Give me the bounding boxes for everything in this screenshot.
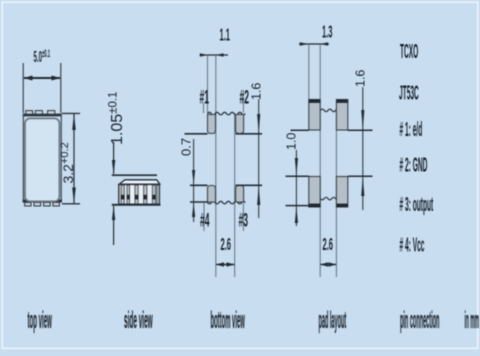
dim 3.2 arrowhead up [72, 114, 76, 130]
ext line 1.3 left [308, 44, 310, 100]
svg-text:# 2: GND: # 2: GND [400, 155, 428, 176]
svg-text:1.6: 1.6 [250, 83, 264, 100]
ext line 2.6 right (long) [234, 113, 236, 277]
dim 1.3 arrowhead left-pointing [321, 42, 329, 46]
bottom tab 1 [25, 202, 31, 206]
leader line pin3 [242, 203, 244, 231]
dim 1.6 up arrowhead [257, 186, 260, 205]
bottom tab 2 [34, 202, 41, 206]
side pad stripe 1 [121, 185, 124, 204]
svg-text:0.7: 0.7 [179, 138, 194, 156]
line from pad4 top to left [190, 184, 208, 186]
dim 1.1 arrowhead left-pointing [216, 53, 223, 57]
ext line right pads inner (long) [335, 108, 337, 277]
dim 3.2 extension line top [62, 112, 80, 114]
inner body rounded rect [25, 118, 59, 201]
dim 3.2 extension line bottom [62, 203, 80, 205]
line pads bottom row top-left [286, 175, 309, 177]
svg-text:2.6: 2.6 [323, 234, 334, 254]
svg-text:#1: #1 [200, 88, 210, 109]
svg-text:#3: #3 [239, 211, 249, 232]
dim 1.6 line [362, 87, 364, 210]
dim 0.7 down arrowhead [192, 170, 195, 185]
dim 1.6 down arrowhead [257, 114, 260, 133]
svg-text:pin connection: pin connection [400, 306, 439, 334]
pad top-right [336, 100, 347, 131]
dim 1.05 upper line with down arrow [113, 142, 115, 174]
wavy top line [309, 109, 347, 112]
pad #4 (bottom-left) [208, 186, 216, 203]
svg-text:bottom view: bottom view [211, 306, 245, 333]
leader line pin2 [242, 97, 244, 113]
package top edge bar [23, 114, 62, 117]
dim 5.0 arrowhead right [52, 76, 61, 81]
pad #1 (top-left) [208, 115, 216, 134]
package bottom edge bar [23, 199, 62, 202]
dim 1.1 line [200, 54, 229, 56]
top tab 2 [35, 111, 42, 115]
line pads bottom row top-right [348, 175, 373, 177]
wavy bottom outline [208, 201, 246, 204]
svg-text:1.6: 1.6 [354, 70, 368, 87]
dim 1.3 arrowhead right-pointing [300, 42, 309, 46]
side view bottom line [112, 204, 161, 206]
leader line pin4 [203, 203, 205, 231]
line pads top row bottom-left [291, 129, 309, 131]
line pads bottom row bottom-left [286, 205, 309, 207]
dim 1.3 line [299, 43, 329, 45]
ext line 1.3 right (long to 2.6) [319, 44, 321, 277]
svg-text:# 1: e/d: # 1: e/d [400, 120, 423, 141]
svg-text:pad layout: pad layout [319, 306, 347, 334]
dim 2.6 arrowhead right [227, 262, 235, 266]
dim 2.6 arrow line [321, 264, 336, 266]
svg-text:#4: #4 [200, 211, 210, 232]
line from pad3 top to right [236, 184, 262, 186]
package left edge [23, 114, 24, 203]
pad bottom-left [309, 177, 320, 208]
bottom tab 4 [53, 202, 59, 206]
dim 1.6 up arrowhead [361, 177, 364, 196]
dim 5.0 extension line left [22, 63, 24, 113]
top tab 3 [48, 111, 55, 115]
side pad stripe 3 [135, 185, 138, 204]
dim 5.0 arrowhead left [24, 76, 33, 81]
line from pad2 bottom to right [236, 133, 262, 135]
side view top seating line [112, 174, 157, 176]
dim 1.0 up arrowhead [295, 206, 298, 223]
dim 0.7 line [193, 139, 195, 222]
leader line pin1 [203, 103, 205, 113]
side pad stripe 5 [152, 185, 155, 204]
svg-text:# 3: output: # 3: output [400, 195, 434, 216]
ext line pad left edge [207, 55, 209, 113]
dim 5.0 extension line right [60, 63, 62, 113]
svg-text:1.0: 1.0 [285, 133, 299, 150]
dim 1.0 line [295, 150, 297, 226]
svg-text:1.1: 1.1 [220, 25, 231, 45]
side pad stripe 4 [144, 185, 147, 204]
svg-text:TCXO: TCXO [400, 42, 418, 63]
side pads mid blocks [121, 195, 125, 200]
dim 1.6 down arrowhead [361, 110, 364, 130]
line pad4 bottom to left [190, 201, 208, 203]
dim 2.6 arrowhead left [216, 262, 224, 266]
dim 1.1 arrowhead right-pointing [200, 53, 207, 57]
line from pad1 bottom to left [185, 133, 208, 135]
package right edge [61, 114, 62, 203]
dim 0.7 up arrowhead [192, 203, 195, 217]
top tab 1 [26, 111, 33, 115]
svg-text:top view: top view [28, 306, 53, 333]
svg-text:#2: #2 [240, 88, 250, 109]
ext line pad right edge / 2.6 left (long) [215, 55, 217, 277]
dim 1.0 down arrowhead [295, 158, 298, 176]
svg-text:side view: side view [124, 306, 153, 333]
dim 2.6 arrowhead left [320, 262, 328, 266]
pad #2 (top-right) [236, 115, 244, 134]
dim 5.0 arrow line [24, 77, 60, 79]
dim 2.6 arrowhead right [329, 262, 337, 266]
side right edge stripe [157, 185, 159, 204]
wavy top outline [208, 112, 246, 115]
svg-text:JT53C: JT53C [399, 83, 419, 104]
dim 2.6 arrow line [216, 264, 234, 266]
dim 3.2 arrowhead down [72, 188, 76, 204]
svg-text:1.3: 1.3 [322, 22, 333, 42]
dim 3.2 arrow line [73, 114, 75, 203]
wavy bottom line [309, 197, 347, 200]
dim 1.05 lower line with up arrow [113, 206, 115, 245]
side view lid [119, 180, 159, 184]
pad bottom-right [336, 177, 347, 208]
side view body [119, 184, 160, 204]
line pads top row bottom-right [348, 129, 373, 131]
svg-text:# 4: Vcc: # 4: Vcc [400, 235, 425, 256]
svg-text:in mm: in mm [465, 306, 479, 334]
pad top-left [309, 100, 320, 131]
svg-text:2.6: 2.6 [221, 234, 232, 254]
pad #3 (bottom-right) [236, 186, 244, 203]
bottom tab 3 [44, 202, 51, 206]
dim 1.6 line [258, 99, 260, 218]
side pad stripe 2 [127, 185, 130, 204]
